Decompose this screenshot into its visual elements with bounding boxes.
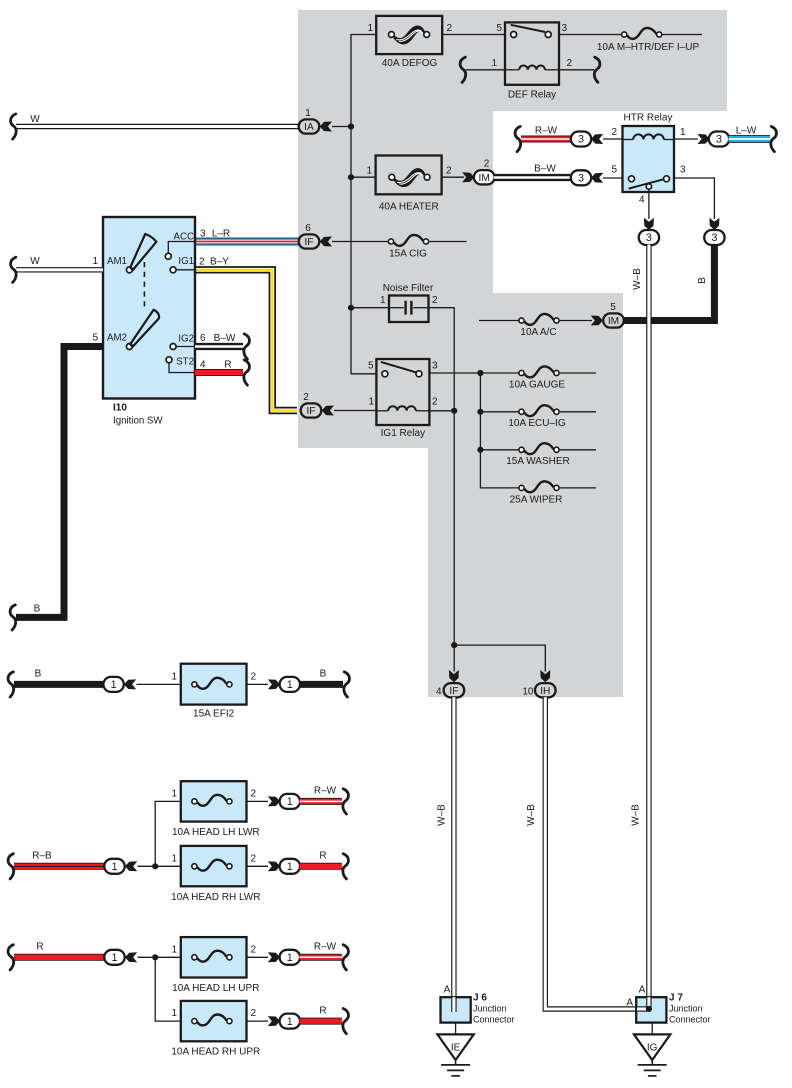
connector arrow (IH) bbox=[540, 670, 550, 682]
ignition switch AM1 contact bbox=[126, 267, 132, 273]
connector arrow (IF ACC) bbox=[320, 237, 332, 247]
svg-text:ST2: ST2 bbox=[176, 357, 194, 368]
wire - HTR relay pin 3 right and down to connector 3 bbox=[674, 178, 714, 219]
junction connector 3 (B-W) bbox=[571, 170, 591, 185]
junction (IF/IH branch) bbox=[451, 642, 457, 648]
svg-text:AM1: AM1 bbox=[107, 256, 127, 267]
shaded harness region (lower block) bbox=[428, 448, 623, 697]
svg-text:2: 2 bbox=[199, 257, 205, 268]
svg-text:1: 1 bbox=[305, 108, 311, 119]
svg-text:5: 5 bbox=[610, 302, 616, 313]
connector arrow (HEAD LH UPR right) bbox=[268, 952, 280, 962]
svg-text:1: 1 bbox=[171, 672, 177, 683]
svg-text:10A M–HTR/DEF I–UP: 10A M–HTR/DEF I–UP bbox=[597, 42, 700, 53]
wire - HEAD LH LWR pin 2 to connector 1 bbox=[247, 800, 269, 802]
DEF relay switch contacts (pins 5-3) bbox=[511, 25, 546, 32]
junction (IG1 pin 2 / vertical wire) bbox=[451, 408, 457, 414]
connector arrow (HEAD LH LWR) bbox=[268, 796, 280, 806]
IG1 relay coil (pins 1-2) bbox=[388, 406, 416, 411]
junction (inside J7) bbox=[646, 1006, 652, 1012]
svg-text:R: R bbox=[36, 942, 43, 953]
harness break (R-W HEAD LH UPR) bbox=[343, 945, 349, 970]
connector IF (ACC) bbox=[299, 234, 320, 248]
wire - 10A ECU-IG output stub bbox=[560, 411, 596, 413]
wire - 15A WASHER output stub bbox=[560, 449, 596, 451]
svg-text:3: 3 bbox=[711, 232, 717, 244]
wire B-W stub from ignition IG2 bbox=[195, 343, 243, 350]
wire W-B from IH down and right to J7 bbox=[545, 697, 637, 1009]
svg-text:R: R bbox=[319, 1006, 326, 1017]
wire - HTR relay pin 1 to connector 3 bbox=[674, 138, 698, 140]
svg-text:R–B: R–B bbox=[32, 851, 52, 862]
svg-text:1: 1 bbox=[92, 256, 98, 267]
connector arrow (B-W) bbox=[591, 173, 603, 183]
junction (bus / 10A ECU-IG) bbox=[477, 409, 483, 415]
svg-text:R: R bbox=[224, 360, 231, 371]
svg-text:R–W: R–W bbox=[314, 942, 337, 953]
svg-text:2: 2 bbox=[432, 397, 438, 408]
wire L-R from ignition ACC to connector IF bbox=[195, 238, 299, 246]
wire B-W from IM to HTR relay connector 3 bbox=[494, 174, 572, 181]
connector IF (IG1) bbox=[301, 403, 322, 417]
svg-text:Connector: Connector bbox=[473, 1015, 515, 1025]
wire - IG1 relay pin 3 to fuse bank bbox=[429, 372, 518, 374]
connector IA bbox=[299, 119, 320, 133]
connector arrow (EFI2 right) bbox=[268, 679, 280, 689]
svg-text:1: 1 bbox=[368, 397, 374, 408]
svg-text:W–B: W–B bbox=[631, 804, 642, 826]
wire - connector 3 to HTR relay pin 2 bbox=[603, 138, 623, 140]
harness break (B wire AM2) bbox=[10, 605, 16, 630]
junction connector 1 (HEAD RH LWR right) bbox=[280, 859, 300, 874]
harness break (W wire left end, IA row) bbox=[11, 114, 17, 139]
connector arrow (R-W) bbox=[591, 134, 603, 144]
svg-text:W: W bbox=[30, 256, 40, 267]
wire - noise filter pin 2 down to IF/IH branch bbox=[429, 308, 455, 645]
shaded harness region (middle block) bbox=[298, 293, 623, 448]
svg-text:IF: IF bbox=[449, 686, 458, 697]
wire R from connector (HEAD RH LWR) bbox=[300, 863, 342, 870]
harness break (DEF relay pin 2) bbox=[594, 57, 600, 82]
svg-text:2: 2 bbox=[251, 945, 257, 956]
svg-text:5: 5 bbox=[611, 165, 617, 176]
noise filter box bbox=[389, 296, 429, 323]
junction connector 1 (HEAD RH LWR left) bbox=[104, 859, 124, 874]
wire W-B from IF down to J6 bbox=[451, 697, 456, 1012]
svg-text:2: 2 bbox=[484, 159, 490, 170]
fuse 40A DEFOG bbox=[376, 16, 442, 54]
svg-text:10: 10 bbox=[522, 687, 534, 698]
wire - 40A DEFOG pin 2 to DEF relay pin 5 bbox=[442, 34, 505, 36]
connector IM (A/C) bbox=[603, 313, 624, 327]
ignition switch ST2 contact bbox=[166, 357, 172, 363]
junction connector 3 (HTR pin 4) bbox=[639, 230, 659, 245]
wire - 15A CIG output stub bbox=[429, 241, 466, 243]
ignition switch ACC contact bbox=[165, 253, 171, 259]
svg-text:3: 3 bbox=[432, 360, 438, 371]
HTR relay coil (pins 2-1) bbox=[633, 134, 664, 139]
svg-text:1: 1 bbox=[366, 166, 372, 177]
wire - DEF relay pin 1 stub bbox=[466, 69, 505, 71]
junction connector 1 (EFI2 left) bbox=[103, 677, 123, 692]
connector arrow (IF IG1) bbox=[322, 406, 334, 416]
svg-text:10A HEAD LH UPR: 10A HEAD LH UPR bbox=[172, 983, 259, 994]
svg-text:2: 2 bbox=[567, 58, 573, 69]
harness break (B EFI2 left) bbox=[8, 672, 14, 697]
svg-text:IH: IH bbox=[540, 686, 550, 697]
svg-text:B: B bbox=[697, 277, 708, 284]
connector arrow (L-W) bbox=[698, 134, 710, 144]
svg-text:2: 2 bbox=[611, 127, 617, 138]
harness break (R-W HEAD LH LWR) bbox=[343, 789, 349, 814]
wire - HEAD LH UPR pin 2 to connector 1 bbox=[247, 956, 269, 958]
harness break (R HEAD LH UPR) bbox=[8, 945, 14, 970]
fuse 15A CIG bbox=[388, 235, 428, 246]
fuse 10A HEAD RH UPR bbox=[181, 1001, 247, 1041]
ground IG bbox=[634, 1034, 670, 1060]
svg-text:IM: IM bbox=[479, 173, 490, 184]
svg-text:1: 1 bbox=[287, 796, 293, 808]
junction connector 3 (HTR pin 3) bbox=[704, 230, 724, 245]
svg-text:1: 1 bbox=[287, 1016, 293, 1028]
junction connector 1 (HEAD LH UPR left) bbox=[104, 950, 124, 965]
wire - UPR branch down to HEAD RH UPR pin 1 bbox=[155, 957, 181, 1021]
wire - IA to vertical bus bbox=[332, 126, 351, 128]
wire - bus stub to noise filter pin 1 bbox=[351, 307, 389, 309]
relay HTR Relay bbox=[623, 126, 675, 192]
connector arrow (HEAD RH UPR) bbox=[268, 1016, 280, 1026]
wire B-Y ignition IG1 to connector IF bbox=[195, 270, 297, 411]
svg-text:1: 1 bbox=[680, 127, 686, 138]
svg-text:Junction: Junction bbox=[473, 1004, 507, 1014]
junction connector 1 (EFI2 right) bbox=[280, 677, 300, 692]
connector IF (bottom) bbox=[444, 683, 465, 697]
svg-text:A: A bbox=[444, 985, 451, 996]
ignition switch AM2 contact bbox=[126, 344, 132, 350]
svg-text:W–B: W–B bbox=[436, 804, 447, 826]
svg-text:B–W: B–W bbox=[214, 333, 236, 344]
harness break (B EFI2 right) bbox=[344, 672, 350, 697]
svg-text:6: 6 bbox=[305, 223, 311, 234]
svg-text:IG2: IG2 bbox=[178, 334, 194, 345]
svg-text:3: 3 bbox=[200, 228, 206, 239]
svg-text:Junction: Junction bbox=[669, 1004, 703, 1014]
svg-text:10A ECU–IG: 10A ECU–IG bbox=[508, 418, 565, 429]
ignition switch I10 body bbox=[103, 217, 195, 399]
wire - 40A HEATER pin 2 to connector IM bbox=[442, 176, 464, 178]
fuse 10A HEAD LH UPR bbox=[181, 937, 247, 977]
wire R to connector 1 (HEAD LH UPR) bbox=[14, 954, 105, 961]
harness break (L-W) bbox=[771, 126, 777, 151]
svg-text:R: R bbox=[319, 851, 326, 862]
svg-text:2: 2 bbox=[446, 166, 452, 177]
fuse 10A M-HTR/DEF I-UP bbox=[622, 28, 662, 39]
IG1 relay switch contacts (pins 5-3) bbox=[381, 362, 416, 372]
harness break (B-W IG2) bbox=[244, 334, 250, 359]
svg-text:2: 2 bbox=[432, 295, 438, 306]
svg-text:1: 1 bbox=[367, 23, 373, 34]
fuse 25A WIPER bbox=[519, 481, 559, 492]
fuse 15A EFI2 bbox=[181, 664, 247, 705]
connector arrow (HEAD LH UPR left) bbox=[125, 952, 137, 962]
svg-text:A: A bbox=[626, 998, 633, 1009]
wire - bus to 40A HEATER pin 1 bbox=[351, 176, 376, 178]
svg-text:1: 1 bbox=[111, 952, 117, 964]
wire - HEAD RH UPR pin 2 to connector 1 bbox=[247, 1020, 269, 1022]
wire - 10A GAUGE output stub bbox=[560, 372, 596, 374]
svg-text:15A CIG: 15A CIG bbox=[389, 249, 427, 260]
svg-text:A: A bbox=[639, 985, 646, 996]
junction (bus / noise filter) bbox=[348, 305, 354, 311]
svg-text:1: 1 bbox=[380, 295, 386, 306]
ignition switch IG2 contact bbox=[170, 344, 176, 350]
svg-text:ACC: ACC bbox=[174, 232, 194, 243]
svg-text:IG1: IG1 bbox=[178, 256, 194, 267]
svg-text:3: 3 bbox=[578, 134, 584, 146]
wire R stub from ignition ST2 bbox=[195, 369, 243, 376]
wire R from connector (HEAD RH UPR) bbox=[300, 1018, 342, 1025]
svg-text:5: 5 bbox=[92, 333, 98, 344]
svg-text:10A GAUGE: 10A GAUGE bbox=[509, 379, 565, 390]
svg-text:HTR Relay: HTR Relay bbox=[624, 113, 673, 124]
svg-text:Noise Filter: Noise Filter bbox=[383, 283, 434, 294]
svg-text:2: 2 bbox=[303, 392, 309, 403]
wire - connector to 15A EFI2 pin 1 bbox=[137, 683, 181, 685]
wire - branch down to connector IF bbox=[453, 645, 455, 671]
fuse 10A GAUGE bbox=[519, 366, 559, 377]
svg-text:10A A/C: 10A A/C bbox=[520, 327, 556, 338]
wire - IF to 15A CIG bbox=[332, 241, 388, 243]
wire W-B from HTR pin 4 connector down to J7 bbox=[646, 245, 651, 1009]
svg-text:B: B bbox=[34, 604, 41, 615]
svg-text:1: 1 bbox=[491, 58, 497, 69]
junction connector J6 body bbox=[441, 997, 471, 1022]
svg-text:DEF Relay: DEF Relay bbox=[508, 90, 556, 101]
harness break (R-B) bbox=[8, 854, 14, 879]
svg-text:2: 2 bbox=[251, 1008, 257, 1019]
svg-text:25A WIPER: 25A WIPER bbox=[510, 494, 563, 505]
junction connector J7 body bbox=[636, 997, 666, 1022]
wire - connector to HEAD LH UPR pin 1 bbox=[138, 956, 181, 958]
svg-text:L–R: L–R bbox=[212, 228, 230, 239]
HTR relay switch contacts (pins 5-3-4) bbox=[629, 179, 664, 188]
harness break (W wire AM1) bbox=[11, 257, 17, 282]
relay DEF Relay bbox=[505, 22, 559, 84]
svg-text:40A HEATER: 40A HEATER bbox=[379, 202, 439, 213]
svg-text:1: 1 bbox=[171, 945, 177, 956]
wire - DEF relay pin 3 to fuse 10A M-HTR/DEF I-UP bbox=[559, 34, 622, 36]
junction (bus / IA row) bbox=[348, 123, 354, 129]
junction (UPR branch) bbox=[152, 954, 158, 960]
connector arrow (HTR pin 4) bbox=[644, 218, 654, 230]
noise filter capacitor bbox=[389, 307, 404, 309]
svg-text:I10: I10 bbox=[113, 403, 127, 414]
wire B from connector (EFI2 right) bbox=[300, 681, 344, 688]
wire - 10A A/C input stub bbox=[479, 320, 519, 322]
harness break (R-W) bbox=[515, 126, 521, 151]
svg-text:B–Y: B–Y bbox=[210, 257, 229, 268]
wire R-W stub to HTR relay connector 3 bbox=[521, 136, 572, 143]
wire - branch right and down to connector IH bbox=[454, 645, 545, 671]
ignition switch gang dashed link bbox=[143, 262, 145, 308]
ignition switch AM2 lever bbox=[130, 310, 159, 347]
ground IE bbox=[437, 1034, 473, 1060]
harness break (DEF relay pin 1) bbox=[460, 57, 466, 82]
svg-text:10A HEAD RH LWR: 10A HEAD RH LWR bbox=[171, 892, 260, 903]
svg-text:IG: IG bbox=[647, 1042, 658, 1053]
junction connector 3 (R-W) bbox=[571, 132, 591, 147]
wire - HTR relay pin 4 down to connector 3 bbox=[648, 189, 650, 219]
wire - IF to IG1 relay pin 1 bbox=[334, 410, 376, 412]
svg-text:R–W: R–W bbox=[314, 786, 337, 797]
junction connector 3 (L-W) bbox=[709, 132, 729, 147]
connector arrow (IA) bbox=[320, 122, 332, 132]
connector IH bbox=[535, 683, 556, 697]
connector IM (heater) bbox=[474, 170, 495, 184]
svg-text:IM: IM bbox=[608, 316, 619, 327]
wire - J7 to ground IG bbox=[651, 1023, 653, 1035]
svg-text:IF: IF bbox=[306, 406, 315, 417]
svg-text:J 7: J 7 bbox=[669, 993, 683, 1004]
svg-text:1: 1 bbox=[171, 789, 177, 800]
DEF relay coil (pins 1-2) bbox=[519, 66, 545, 70]
svg-text:1: 1 bbox=[111, 861, 117, 873]
J6 wire tail inside bbox=[451, 997, 456, 1012]
svg-text:IF: IF bbox=[304, 237, 313, 248]
harness break (R HEAD RH LWR) bbox=[343, 854, 349, 879]
wire - 15A EFI2 pin 2 to connector 1 bbox=[247, 683, 269, 685]
svg-text:IA: IA bbox=[304, 122, 314, 133]
svg-text:1: 1 bbox=[287, 679, 293, 691]
svg-text:AM2: AM2 bbox=[107, 333, 127, 344]
wire - HEAD RH LWR pin 2 to connector 1 bbox=[247, 865, 269, 867]
svg-text:R–W: R–W bbox=[535, 126, 558, 137]
svg-text:4: 4 bbox=[436, 687, 442, 698]
svg-text:3: 3 bbox=[680, 165, 686, 176]
junction connector 1 (HEAD LH UPR right) bbox=[280, 950, 300, 965]
junction (LWR branch) bbox=[152, 863, 158, 869]
svg-text:W–B: W–B bbox=[526, 804, 537, 826]
svg-text:1: 1 bbox=[287, 952, 293, 964]
svg-text:3: 3 bbox=[646, 232, 652, 244]
fuse 10A A/C bbox=[519, 314, 559, 325]
wire - connector 3 to HTR relay pin 5 bbox=[603, 177, 628, 179]
wire - bus to 15A WASHER bbox=[480, 449, 518, 451]
svg-text:B–W: B–W bbox=[534, 164, 556, 175]
wire - 10A M-HTR/DEF I-UP output stub bbox=[662, 34, 702, 36]
connector arrow (HEAD RH LWR left) bbox=[125, 861, 137, 871]
svg-text:3: 3 bbox=[716, 134, 722, 146]
connector arrow (EFI2 left) bbox=[124, 679, 136, 689]
svg-text:15A WASHER: 15A WASHER bbox=[506, 456, 570, 467]
svg-text:40A DEFOG: 40A DEFOG bbox=[382, 58, 438, 69]
svg-text:1: 1 bbox=[171, 854, 177, 865]
wire - 10A A/C to connector IM bbox=[560, 320, 592, 322]
svg-text:J 6: J 6 bbox=[473, 993, 487, 1004]
svg-text:15A EFI2: 15A EFI2 bbox=[193, 709, 235, 720]
svg-text:IG1 Relay: IG1 Relay bbox=[381, 428, 425, 439]
svg-text:IE: IE bbox=[451, 1042, 461, 1053]
relay IG1 Relay bbox=[376, 359, 429, 425]
ignition switch AM1 lever bbox=[130, 234, 156, 270]
wire - bus to 10A ECU-IG bbox=[480, 411, 518, 413]
fuse 40A HEATER bbox=[376, 156, 442, 195]
J7 wire tails inside bbox=[646, 997, 651, 1009]
fuse 15A WASHER bbox=[519, 443, 559, 454]
wire - J6 to ground IE bbox=[455, 1023, 457, 1035]
shaded harness region (left column) bbox=[298, 111, 493, 293]
svg-text:Ignition SW: Ignition SW bbox=[113, 416, 163, 427]
wire R-W from connector (HEAD LH UPR) bbox=[300, 954, 342, 961]
junction connector 1 (HEAD RH UPR) bbox=[280, 1014, 300, 1029]
wire B to connector 1 (EFI2 left) bbox=[14, 681, 104, 688]
svg-text:L–W: L–W bbox=[736, 126, 757, 137]
junction (bus / HEATER row) bbox=[348, 174, 354, 180]
wire - vertical bus from 40A DEFOG pin 1 down to IG1 relay pin 5 bbox=[351, 35, 378, 374]
wire - 25A WIPER output stub bbox=[560, 487, 596, 489]
wire B thick from ignition AM2 down-left bbox=[16, 347, 103, 618]
connector arrow (HTR pin 3) bbox=[709, 218, 719, 230]
wire R-B to connector 1 (HEAD RH LWR) bbox=[14, 863, 105, 870]
ignition switch IG1 contact bbox=[170, 267, 176, 273]
svg-text:Connector: Connector bbox=[669, 1015, 711, 1025]
svg-text:6: 6 bbox=[200, 333, 206, 344]
junction (fuse bank bus top) bbox=[477, 370, 483, 376]
wire - HEAD LH LWR pin 1 branch bbox=[155, 801, 181, 866]
svg-text:2: 2 bbox=[251, 789, 257, 800]
wire W to connector IA bbox=[16, 124, 299, 129]
svg-text:1: 1 bbox=[111, 679, 117, 691]
shaded harness region (top band) bbox=[298, 10, 727, 111]
connector arrow (IM heater) bbox=[462, 172, 474, 182]
connector arrow (IF bottom) bbox=[449, 670, 459, 682]
connector arrow (HEAD RH LWR right) bbox=[268, 861, 280, 871]
wire - connector to HEAD RH LWR pin 1 bbox=[138, 865, 181, 867]
svg-text:4: 4 bbox=[639, 195, 645, 206]
fuse 10A ECU-IG bbox=[519, 405, 559, 416]
svg-text:4: 4 bbox=[200, 360, 206, 371]
wire B thick from connector 3 down-left to IM (A/C) bbox=[624, 245, 715, 321]
svg-text:2: 2 bbox=[447, 23, 453, 34]
wire - fuse bank vertical bus bbox=[480, 373, 518, 488]
svg-text:W–B: W–B bbox=[632, 268, 643, 290]
fuse 10A HEAD LH LWR bbox=[181, 781, 247, 821]
svg-text:W: W bbox=[30, 114, 40, 125]
svg-text:1: 1 bbox=[287, 861, 293, 873]
svg-text:3: 3 bbox=[578, 173, 584, 185]
svg-text:2: 2 bbox=[251, 854, 257, 865]
wire L-W from connector 3 bbox=[729, 135, 771, 143]
svg-text:10A HEAD LH LWR: 10A HEAD LH LWR bbox=[172, 827, 260, 838]
svg-text:5: 5 bbox=[496, 23, 502, 34]
wire - IG1 relay pin 2 to vertical wire bbox=[429, 410, 454, 412]
wire R-W from connector (HEAD LH LWR) bbox=[300, 798, 342, 805]
svg-text:3: 3 bbox=[562, 23, 568, 34]
wire W to ignition AM1 bbox=[16, 267, 103, 272]
junction (bus / 15A WASHER) bbox=[477, 447, 483, 453]
junction connector 1 (HEAD LH LWR) bbox=[280, 794, 300, 809]
svg-text:B: B bbox=[320, 669, 327, 680]
harness break (R HEAD RH UPR) bbox=[343, 1009, 349, 1034]
svg-text:1: 1 bbox=[171, 1008, 177, 1019]
svg-text:10A HEAD RH UPR: 10A HEAD RH UPR bbox=[171, 1047, 260, 1058]
wire - DEF relay pin 2 stub bbox=[559, 69, 594, 71]
fuse 10A HEAD RH LWR bbox=[181, 846, 247, 886]
harness break (R ST2) bbox=[244, 360, 250, 385]
svg-text:5: 5 bbox=[368, 360, 374, 371]
svg-text:2: 2 bbox=[251, 672, 257, 683]
connector arrow (IM A/C) bbox=[591, 316, 603, 326]
